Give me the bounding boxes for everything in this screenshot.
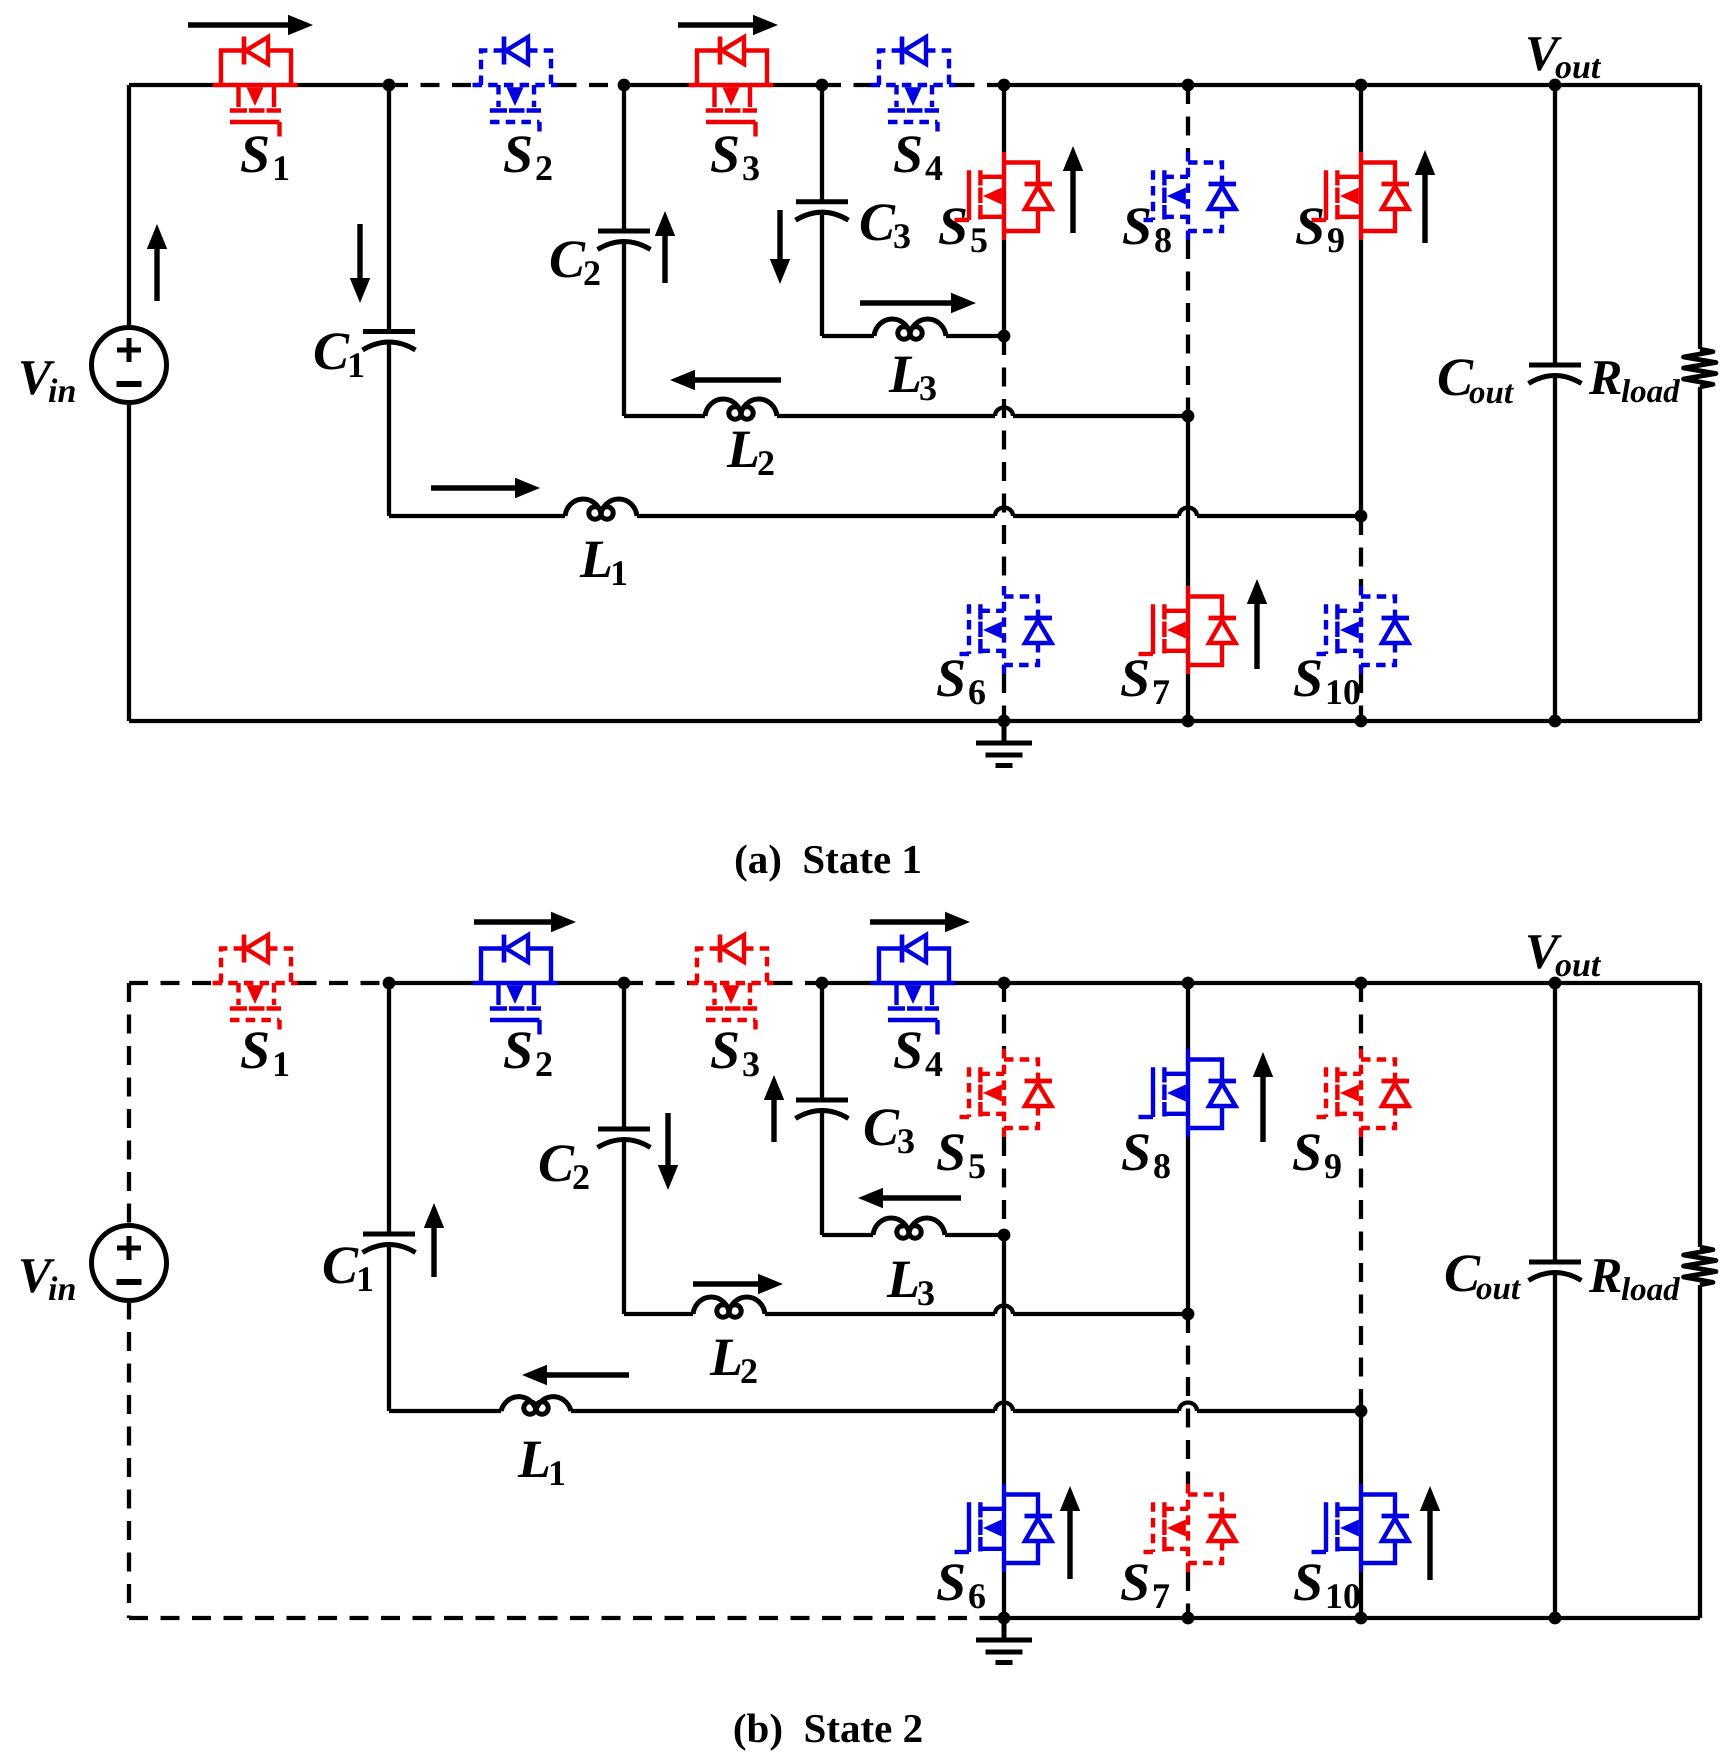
svg-text:S: S: [240, 124, 270, 184]
wire top rail S1-C1node a: [298, 83, 390, 87]
inductor L1 (b): [501, 1397, 571, 1415]
node C1 top-rail node b: [383, 977, 396, 990]
wire C1 wire upper a: [387, 85, 391, 332]
wire L2 right a: [1013, 414, 1188, 418]
wire S8 branch upper a: [1186, 85, 1190, 152]
wire top rail S1-C1node b: [298, 981, 390, 985]
svg-text:S: S: [938, 196, 968, 256]
MOSFET switch S9: [1312, 152, 1410, 240]
wire S9-S10 link b: [1359, 1411, 1363, 1484]
wire L2 mid b: [765, 1312, 995, 1316]
capacitor C3 (a): [796, 202, 849, 221]
wire hop at L1 over S7 branch b: [1179, 1403, 1197, 1412]
wire S5 branch lower a: [1002, 240, 1006, 336]
wire L3 lead right a: [946, 334, 1004, 338]
wire S8 branch upper b: [1186, 983, 1190, 1049]
current arrow iC1 down: [350, 224, 370, 303]
wire S6 branch lower a: [1002, 674, 1006, 721]
svg-text:S: S: [240, 1020, 270, 1080]
wire top rail right a: [1004, 83, 1700, 87]
svg-text:6: 6: [968, 1576, 986, 1616]
MOSFET switch S2: [473, 37, 558, 137]
wire C2 wire upper b: [622, 983, 626, 1129]
wire L1 lead left a: [389, 514, 565, 518]
wire hop at L2 over S5 branch a: [995, 408, 1013, 417]
wire left rail upper b: [127, 983, 131, 1226]
current arrow iC2 down: [658, 1113, 678, 1190]
inductor L2 (b): [693, 1297, 765, 1317]
MOSFET switch S2: [473, 935, 558, 1035]
wire S8-S7 link a: [1186, 416, 1190, 586]
current arrow iS6 up: [1060, 1486, 1080, 1579]
svg-text:C: C: [549, 229, 586, 289]
svg-text:S: S: [710, 1020, 740, 1080]
capacitor Cout (b): [1529, 1262, 1582, 1281]
svg-text:out: out: [1555, 947, 1602, 984]
svg-text:8: 8: [1154, 220, 1172, 260]
wire S8-S7 link b: [1186, 1314, 1190, 1484]
node C2 top-rail node b: [618, 977, 631, 990]
current arrow iS4 right: [870, 912, 970, 932]
wire C3 wire lower a: [820, 212, 824, 336]
svg-text:1: 1: [356, 1259, 374, 1299]
svg-text:out: out: [1555, 49, 1602, 86]
MOSFET switch S10: [1312, 586, 1410, 674]
svg-text:9: 9: [1324, 1146, 1342, 1186]
current arrow iS5 up: [1063, 146, 1083, 233]
wire S9 branch upper a: [1359, 85, 1363, 152]
wire C3 wire lower b: [820, 1110, 824, 1235]
inductor L2 (a): [705, 399, 777, 419]
wire top rail S2-C2node a: [558, 83, 625, 87]
node S5 top-rail node b: [998, 977, 1011, 990]
wire L1 lead left b: [389, 1409, 501, 1413]
wire C3 wire upper b: [820, 983, 824, 1100]
wire L3 lead left a: [822, 334, 874, 338]
node S7 rail node b: [1182, 1612, 1195, 1625]
svg-text:S: S: [936, 648, 966, 708]
wire hop at L1 over S5 branch b: [995, 1403, 1013, 1412]
wire C3 wire upper a: [820, 85, 824, 202]
wire bottom rail right b: [1004, 1616, 1700, 1620]
wire S5-S6 link b: [1002, 1235, 1006, 1484]
wire S9 branch upper b: [1359, 983, 1363, 1049]
svg-text:in: in: [48, 1271, 76, 1308]
current arrow iS8 up: [1253, 1052, 1273, 1142]
svg-text:2: 2: [572, 1157, 590, 1197]
wire S7 branch lower a: [1186, 674, 1190, 721]
wire S5 branch lower b: [1002, 1137, 1006, 1235]
svg-text:C: C: [859, 192, 896, 252]
voltage source Vin (b): [92, 1226, 167, 1301]
inductor L3 (b): [873, 1218, 945, 1238]
wire L1 right a: [1197, 514, 1361, 518]
node L2 node a: [1182, 410, 1195, 423]
wire L1 right b: [1197, 1409, 1361, 1413]
svg-text:R: R: [1588, 1247, 1622, 1303]
current arrow iC2 up: [655, 211, 675, 283]
wire bottom rail a: [129, 719, 1700, 723]
wire top rail S4-S5node b: [956, 981, 1005, 985]
svg-text:load: load: [1621, 374, 1680, 410]
wire S5-S6 link a: [1002, 336, 1006, 586]
wire top rail C1node-S2 a: [389, 83, 473, 87]
svg-text:1: 1: [347, 345, 365, 385]
MOSFET switch S8: [1139, 152, 1237, 240]
node C2 top-rail node a: [618, 79, 631, 92]
current arrow iL1 left: [522, 1365, 629, 1385]
svg-text:L: L: [888, 344, 922, 404]
svg-text:S: S: [893, 1020, 923, 1080]
node S7 rail node a: [1182, 715, 1195, 728]
svg-text:5: 5: [970, 220, 988, 260]
svg-text:(b) State 2: (b) State 2: [733, 1705, 923, 1751]
svg-text:L: L: [886, 1249, 920, 1309]
node C3 top-rail node b: [816, 977, 829, 990]
wire C1 wire lower a: [387, 342, 391, 517]
svg-text:S: S: [1121, 1122, 1151, 1182]
svg-text:L: L: [726, 419, 760, 479]
node S9 top-rail node a: [1355, 79, 1368, 92]
MOSFET switch S8: [1139, 1049, 1237, 1137]
capacitor C3 (b): [796, 1100, 849, 1119]
MOSFET switch S10: [1312, 1484, 1410, 1572]
svg-text:L: L: [517, 1429, 551, 1489]
svg-text:1: 1: [610, 553, 628, 593]
svg-text:C: C: [313, 321, 350, 381]
svg-text:8: 8: [1153, 1146, 1171, 1186]
MOSFET switch S3: [689, 935, 774, 1035]
wire top rail C1node-S2 b: [389, 981, 473, 985]
wire S10 branch lower b: [1359, 1572, 1363, 1618]
svg-text:C: C: [863, 1097, 900, 1157]
node S8 top-rail node b: [1182, 977, 1195, 990]
inductor L1 (a): [565, 499, 637, 519]
node S9 top-rail node b: [1355, 977, 1368, 990]
svg-text:3: 3: [893, 216, 911, 256]
wire C1 wire lower b: [387, 1244, 391, 1411]
svg-text:4: 4: [925, 1044, 943, 1084]
svg-text:5: 5: [968, 1146, 986, 1186]
resistor Rload (b): [1684, 1247, 1717, 1285]
MOSFET switch S6: [955, 586, 1053, 674]
svg-text:S: S: [936, 1122, 966, 1182]
node gnd node b: [998, 1612, 1011, 1625]
wire top rail C2node-S3 b: [624, 981, 689, 985]
wire left rail lower b: [127, 1301, 131, 1619]
svg-text:7: 7: [1152, 1576, 1170, 1616]
capacitor Cout (a): [1529, 365, 1582, 384]
wire L1 mid2 b: [1013, 1409, 1179, 1413]
MOSFET switch S6: [955, 1484, 1053, 1572]
svg-text:10: 10: [1325, 1576, 1361, 1616]
node L1 node a: [1355, 510, 1368, 523]
current arrow iL3 left: [858, 1188, 961, 1208]
wire S8 branch lower b: [1186, 1137, 1190, 1314]
node S10 rail node b: [1355, 1612, 1368, 1625]
wire L1 mid2 a: [1013, 514, 1179, 518]
svg-text:S: S: [893, 124, 923, 184]
svg-text:S: S: [710, 124, 740, 184]
svg-text:L: L: [709, 1327, 743, 1387]
svg-text:S: S: [1120, 1552, 1150, 1612]
current arrow iS1 right: [188, 15, 313, 35]
wire S6 branch lower b: [1002, 1572, 1006, 1618]
svg-text:3: 3: [917, 1273, 935, 1313]
node L3 node a: [998, 330, 1011, 343]
svg-text:2: 2: [535, 148, 553, 188]
resistor Rload (a): [1684, 349, 1717, 387]
MOSFET switch S7: [1139, 1484, 1237, 1572]
svg-text:L: L: [579, 529, 613, 589]
MOSFET switch S3: [689, 37, 774, 137]
svg-text:out: out: [1476, 1271, 1521, 1307]
current arrow iS9 up: [1415, 150, 1435, 243]
svg-text:out: out: [1469, 375, 1514, 411]
node L2 node b: [1182, 1308, 1195, 1321]
svg-text:2: 2: [757, 443, 775, 483]
node S10 rail node a: [1355, 715, 1368, 728]
wire Rload wire lower b: [1698, 1285, 1702, 1618]
wire S10 branch lower a: [1359, 674, 1363, 721]
wire left rail lower a: [127, 403, 131, 722]
svg-text:load: load: [1621, 1272, 1680, 1308]
current arrow Iin up: [147, 224, 167, 301]
wire C2 wire lower b: [622, 1139, 626, 1314]
wire Cout wire lower b: [1553, 1272, 1557, 1618]
capacitor C2 (a): [598, 231, 651, 250]
MOSFET switch S5: [955, 1049, 1053, 1137]
svg-text:6: 6: [968, 672, 986, 712]
svg-text:S: S: [503, 1020, 533, 1080]
inductor L3 (a): [874, 319, 946, 339]
current arrow iC3 up: [764, 1075, 784, 1142]
svg-text:S: S: [1120, 648, 1150, 708]
svg-text:2: 2: [583, 253, 601, 293]
svg-text:S: S: [936, 1552, 966, 1612]
wire top rail S2-C2node b: [558, 981, 625, 985]
MOSFET switch S4: [871, 37, 956, 137]
wire L2 mid a: [777, 414, 995, 418]
wire top rail S4-S5node a: [956, 83, 1005, 87]
current arrow iL1 right: [431, 478, 540, 498]
node Vout top-rail node b: [1549, 977, 1562, 990]
wire left rail upper a: [127, 85, 131, 328]
wire S7 branch lower b: [1186, 1572, 1190, 1618]
ground GND (b): [976, 1618, 1032, 1663]
svg-text:3: 3: [897, 1121, 915, 1161]
wire L2 right b: [1013, 1312, 1188, 1316]
svg-text:in: in: [48, 373, 76, 410]
wire L1 mid b: [571, 1409, 995, 1413]
current arrow iC1 up: [424, 1203, 444, 1277]
svg-text:S: S: [1292, 1122, 1322, 1182]
current arrow iS2 right: [474, 912, 576, 932]
wire C2 wire upper a: [622, 85, 626, 231]
node C1 top-rail node a: [383, 79, 396, 92]
wire Rload wire lower a: [1698, 387, 1702, 721]
node Cout rail node a: [1549, 715, 1562, 728]
svg-text:2: 2: [535, 1044, 553, 1084]
capacitor C1 (a): [363, 332, 416, 351]
MOSFET switch S4: [871, 935, 956, 1035]
wire S9-S10 link a: [1359, 516, 1363, 586]
svg-text:9: 9: [1327, 220, 1345, 260]
MOSFET switch S5: [955, 152, 1053, 240]
wire L2 lead left b: [624, 1312, 693, 1316]
node Vout top-rail node a: [1549, 79, 1562, 92]
svg-text:1: 1: [272, 1044, 290, 1084]
wire hop at L1 over S5 branch a: [995, 508, 1013, 517]
MOSFET switch S7: [1139, 586, 1237, 674]
wire Rload wire upper a: [1698, 85, 1702, 349]
svg-text:1: 1: [548, 1453, 566, 1493]
MOSFET switch S9: [1312, 1049, 1410, 1137]
MOSFET switch S1: [213, 37, 298, 137]
current arrow iL2 right: [693, 1274, 783, 1294]
wire hop at L1 over S7 branch a: [1179, 508, 1197, 517]
wire Cout wire lower a: [1553, 375, 1557, 721]
wire top rail S3-C3node a: [774, 83, 823, 87]
wire bottom rail left b: [129, 1616, 1004, 1620]
wire S5 branch upper a: [1002, 85, 1006, 152]
wire L3 lead right b: [945, 1233, 1004, 1237]
node L3 node b: [998, 1229, 1011, 1242]
wire L2 lead left a: [624, 414, 705, 418]
svg-text:7: 7: [1152, 672, 1170, 712]
node Cout rail node b: [1549, 1612, 1562, 1625]
wire top rail S3-C3node b: [774, 981, 823, 985]
svg-text:S: S: [1295, 196, 1325, 256]
wire S5 branch upper b: [1002, 983, 1006, 1049]
svg-text:C: C: [538, 1133, 575, 1193]
node L1 node b: [1355, 1405, 1368, 1418]
wire top rail left a: [129, 83, 213, 87]
wire Cout wire upper b: [1553, 983, 1557, 1262]
node S5 top-rail node a: [998, 79, 1011, 92]
wire top rail C3node-S4 b: [822, 981, 871, 985]
node gnd node a: [998, 715, 1011, 728]
node C3 top-rail node a: [816, 79, 829, 92]
wire Rload wire upper b: [1698, 983, 1702, 1247]
current arrow iS7 up: [1247, 579, 1267, 669]
svg-text:3: 3: [919, 368, 937, 408]
current arrow iS3 right: [678, 15, 778, 35]
svg-text:4: 4: [925, 148, 943, 188]
capacitor C2 (b): [598, 1129, 651, 1148]
current arrow iL2 left: [670, 370, 781, 390]
wire S8 branch lower a: [1186, 240, 1190, 416]
wire top rail left b: [129, 981, 213, 985]
svg-text:R: R: [1588, 349, 1622, 405]
wire Cout wire upper a: [1553, 85, 1557, 365]
svg-text:S: S: [1293, 648, 1323, 708]
svg-text:S: S: [503, 124, 533, 184]
wire top rail C3node-S4 a: [822, 83, 871, 87]
ground GND (a): [976, 721, 1032, 766]
voltage source Vin (a): [92, 328, 167, 403]
capacitor C1 (b): [363, 1234, 416, 1253]
wire C1 wire upper b: [387, 983, 391, 1234]
current arrow iS10 up: [1420, 1486, 1440, 1580]
svg-text:S: S: [1122, 196, 1152, 256]
svg-text:1: 1: [272, 148, 290, 188]
current arrow iC3 down: [770, 210, 790, 284]
wire S9 branch lower b: [1359, 1137, 1363, 1411]
wire C2 wire lower a: [622, 241, 626, 416]
wire L3 lead left b: [822, 1233, 873, 1237]
current arrow iL3 right: [860, 293, 976, 313]
wire top rail right b: [1004, 981, 1700, 985]
node S8 top-rail node a: [1182, 79, 1195, 92]
wire S9 branch lower a: [1359, 240, 1363, 516]
svg-text:(a) State 1: (a) State 1: [734, 836, 922, 882]
wire hop at L2 over S5 branch b: [995, 1306, 1013, 1315]
MOSFET switch S1: [213, 935, 298, 1035]
svg-text:2: 2: [740, 1351, 758, 1391]
svg-text:3: 3: [742, 148, 760, 188]
svg-text:S: S: [1293, 1552, 1323, 1612]
svg-text:3: 3: [742, 1044, 760, 1084]
svg-text:C: C: [322, 1235, 359, 1295]
wire top rail C2node-S3 a: [624, 83, 689, 87]
svg-text:10: 10: [1325, 672, 1361, 712]
wire L1 mid a: [637, 514, 995, 518]
